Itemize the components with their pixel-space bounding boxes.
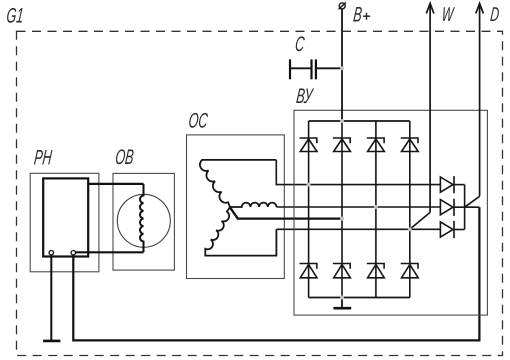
wire D diagonal to trio bus [465,196,480,207]
wire PH to OB top [88,183,143,185]
stator phase winding middle [230,203,277,207]
label BY [295,83,315,107]
wire PH pin1 to ground [50,255,52,340]
junction node ground/bottom bus [340,296,344,300]
wire diode3 cathode to bus [454,229,465,231]
field coil OB [140,184,144,252]
capacitor C lead left [290,67,311,69]
svg-text:G1: G1 [5,3,24,27]
bottom bus of rectifier [309,297,410,299]
capacitor C lead right [317,67,342,69]
stator phase winding top [200,160,276,207]
wire diode1 cathode to bus [454,184,465,186]
diode column 2 wire [341,121,343,298]
field diode VD10 middle [440,199,454,216]
W terminal line with arrow [426,3,434,212]
D terminal line with arrow [476,3,484,196]
field diode cathode bus [464,185,466,230]
wire OB bottom to PH pin 2 [76,251,144,253]
bottom diode VD8 [401,264,419,278]
diode column 4 wire [409,121,411,298]
junction node B+/top bus [340,119,344,123]
bottom diode VD5 [300,264,318,278]
svg-text:ОС: ОС [187,108,209,132]
label B+ plus sign [363,13,370,20]
svg-text:ОВ: ОВ [114,145,135,169]
wire W tap diagonal [410,212,430,229]
capacitor C plates [312,59,316,79]
wire middle phase to rectifier [277,206,441,208]
stator OC box [187,135,285,279]
label G1 [5,3,24,27]
terminal pin 2 of PH [71,251,75,255]
label PH [33,145,53,169]
B+ terminal circle [339,2,346,9]
label W [441,3,456,26]
field diode VD9 top [440,176,454,193]
junction node phase1/column1 [307,183,311,187]
rectifier BY box [294,110,487,315]
capacitor C left chassis bar [289,59,291,79]
top bus of rectifier [309,120,410,122]
label OB [114,145,135,169]
label OC [187,108,209,132]
wire bottom phase to rectifier [276,228,440,230]
label C [294,32,306,56]
bottom diode VD6 [333,264,351,278]
label D [489,3,500,26]
stator phase winding bottom [205,207,276,255]
ground symbol rectifier [333,307,351,310]
junction node phase3/column4/W [408,227,412,231]
bottom diode VD7 [367,264,385,278]
junction node phase2/column3 [374,205,378,209]
junction node C/B+ [340,66,344,70]
regulator PH outer box [30,173,99,271]
label B+ [352,2,363,26]
top diode VD2 [333,138,351,152]
top diode VD4 [401,138,419,152]
rotor circle of OB [117,194,170,247]
B+ terminal line [341,9,343,121]
rectifier ground wire [341,298,343,308]
junction node neutral/column2 [340,217,344,221]
terminal pin 1 of PH [49,251,53,255]
diode column 3 wire [375,121,377,298]
wire diode2 cathode to D node [454,206,479,208]
wire top phase to rectifier [276,160,440,185]
ground symbol left [43,340,60,343]
wire PH pin2 down and bottom rail to D node [73,207,479,340]
field diode VD11 bottom [440,221,454,238]
diode column 1 wire [308,121,310,298]
top diode VD3 [367,138,385,152]
svg-text:РН: РН [33,145,53,169]
field winding OB box [113,173,174,270]
top diode VD1 [300,138,318,152]
regulator PH inner body [43,178,88,256]
star point neutral tap wire [230,207,342,218]
